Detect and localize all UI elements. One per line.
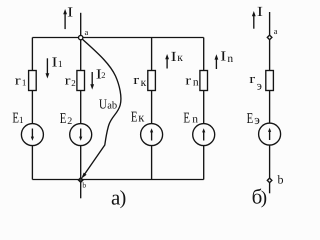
- voltage source Ek (circle): [141, 124, 163, 146]
- resistor r2: [77, 71, 85, 91]
- resistor r_e (equivalent): [266, 71, 274, 91]
- voltage source E_e (circle): [259, 123, 281, 145]
- svg-text:E: E: [247, 111, 254, 127]
- svg-text:1: 1: [19, 116, 24, 126]
- voltage source E1 (circle): [21, 124, 43, 146]
- svg-text:1: 1: [58, 60, 63, 70]
- svg-text:E: E: [183, 111, 190, 127]
- current arrow In (up): [215, 58, 217, 69]
- svg-text:1: 1: [22, 78, 27, 88]
- voltage source E_e internal arrow (up): [269, 130, 271, 140]
- voltage source E2 internal arrow (down): [80, 129, 82, 139]
- svg-text:): ): [120, 187, 127, 209]
- current arrow I total (left circuit, up): [64, 13, 66, 29]
- wire: bottom bus of circuit a (node b rail): [32, 179, 203, 181]
- wire: branch 1 lower segment: [31, 146, 33, 180]
- svg-text:к: к: [141, 77, 147, 89]
- svg-text:a: a: [85, 27, 89, 37]
- current arrow I (right circuit, up): [253, 15, 255, 29]
- wire: right circuit stub above node a: [269, 12, 271, 71]
- voltage source E2 (circle): [70, 124, 92, 146]
- wire: branch 2 lower segment: [80, 146, 82, 180]
- svg-text:I: I: [257, 5, 264, 20]
- svg-text:к: к: [138, 111, 145, 125]
- wire: top bus of circuit a (node a rail): [32, 37, 203, 39]
- svg-text:2: 2: [71, 78, 76, 88]
- svg-text:r: r: [185, 73, 192, 88]
- svg-text:): ): [261, 188, 267, 209]
- wire: branch k upper segment: [151, 38, 153, 71]
- wire: branch 2 middle segment: [80, 91, 82, 124]
- svg-text:E: E: [60, 111, 67, 127]
- svg-text:n: n: [227, 53, 233, 65]
- wire: branch k middle segment: [151, 91, 153, 124]
- wire: stub below node b (left circuit): [80, 180, 82, 199]
- node b (left circuit): [78, 178, 83, 183]
- svg-text:к: к: [177, 52, 183, 64]
- wire: branch n upper segment: [203, 38, 205, 71]
- wire: branch 2 upper segment: [80, 38, 82, 71]
- wire: right circuit middle segment: [269, 91, 271, 124]
- wire: branch 1 middle segment: [31, 91, 33, 124]
- svg-text:n: n: [193, 77, 199, 89]
- svg-text:ab: ab: [107, 101, 117, 112]
- svg-text:U: U: [99, 97, 107, 112]
- svg-text:b: b: [82, 181, 86, 190]
- svg-text:b: b: [278, 173, 284, 187]
- wire: right circuit lower segment: [269, 145, 271, 193]
- resistor rk: [148, 71, 156, 91]
- current arrow Ik (up): [166, 58, 168, 69]
- svg-text:2: 2: [67, 116, 72, 127]
- svg-text:r: r: [133, 72, 140, 87]
- current arrow I2 (down): [91, 72, 93, 86]
- svg-text:I: I: [220, 50, 227, 65]
- wire: branch n lower segment: [203, 146, 205, 180]
- node b (right circuit): [267, 178, 272, 183]
- svg-text:n: n: [192, 114, 198, 126]
- svg-text:E: E: [131, 110, 138, 126]
- wire: branch k lower segment: [151, 146, 153, 180]
- voltage source En (circle): [193, 124, 215, 146]
- wire: stub above node a (left circuit): [80, 13, 82, 38]
- svg-text:2: 2: [101, 70, 105, 80]
- svg-text:r: r: [15, 72, 22, 87]
- wire: branch n middle segment: [203, 91, 205, 124]
- current arrow I1 (down): [46, 58, 48, 74]
- wire: branch 1 upper segment: [31, 38, 33, 71]
- resistor r1: [29, 71, 37, 91]
- node a (right circuit): [267, 35, 272, 40]
- voltage source E1 internal arrow (down): [31, 129, 33, 139]
- svg-text:I: I: [67, 5, 74, 20]
- svg-text:r: r: [249, 71, 256, 86]
- voltage source Ek internal arrow (up): [151, 131, 153, 141]
- svg-text:I: I: [171, 50, 178, 65]
- svg-text:a: a: [274, 26, 278, 36]
- voltage arrow Uab (curved from node a to node b): [81, 38, 121, 176]
- svg-text:э: э: [254, 112, 260, 127]
- svg-text:э: э: [257, 79, 262, 93]
- node a (left circuit): [79, 35, 83, 39]
- voltage source En internal arrow (up): [203, 131, 205, 141]
- resistor rn: [200, 71, 208, 91]
